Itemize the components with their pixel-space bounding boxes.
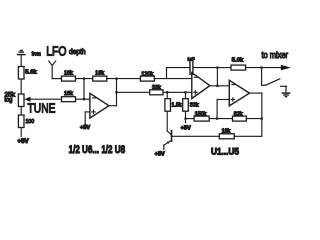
svg-text:U1...U5: U1...U5 (211, 146, 240, 157)
node (83, 78, 85, 80)
svg-text:5.6k: 5.6k (25, 69, 37, 75)
svg-text:150k: 150k (195, 111, 207, 117)
resistor 120k (140, 76, 154, 81)
op-amp U6 summer (90, 93, 109, 118)
resistor 18k (219, 134, 234, 139)
wire 33k row (117, 91, 150, 93)
svg-text:+5V: +5V (80, 125, 90, 131)
wire output (250, 92, 262, 94)
svg-text:5.6k: 5.6k (232, 58, 244, 64)
svg-text:+5V: +5V (18, 138, 30, 145)
wire base row (172, 135, 220, 137)
node (115, 91, 117, 93)
resistor 18k (62, 76, 76, 81)
wire (163, 91, 192, 93)
svg-text:1uF: 1uF (187, 56, 194, 62)
svg-text:1/2 U6... 1/2 U8: 1/2 U6... 1/2 U8 (69, 144, 126, 156)
svg-text:100: 100 (26, 119, 35, 125)
+5V node (184, 118, 186, 120)
ground (282, 92, 291, 97)
wire (51, 65, 53, 78)
wire output (210, 85, 229, 87)
wire cap feedback (216, 68, 218, 86)
wire (185, 111, 187, 118)
svg-text:log: log (5, 97, 14, 104)
resistor 5.6k (231, 65, 246, 70)
ground (17, 50, 26, 56)
resistor 1.5k vertical (166, 92, 168, 98)
op-amp U1..U5 schmitt (229, 80, 249, 106)
svg-text:33k: 33k (152, 85, 161, 91)
svg-text:+5V: +5V (155, 151, 165, 157)
svg-text:TUNE: TUNE (28, 101, 56, 116)
resistor 18k feedback (93, 76, 107, 81)
+5V to plus input (85, 111, 90, 113)
resistor 5.6k (18, 67, 24, 80)
svg-text:18k: 18k (64, 71, 73, 77)
svg-text:18k: 18k (95, 71, 104, 77)
wire (20, 55, 22, 66)
resistor 100 (18, 115, 24, 128)
svg-text:18k: 18k (222, 128, 231, 134)
svg-text:depth: depth (69, 49, 86, 56)
resistor 33k vertical (185, 92, 187, 98)
wire (246, 118, 261, 120)
node (166, 91, 168, 93)
wire (20, 79, 22, 94)
wire (76, 78, 93, 80)
svg-text:82k: 82k (234, 111, 243, 117)
switch (261, 68, 263, 86)
transistor Q1 (166, 111, 168, 131)
wire (217, 67, 231, 69)
resistor 150k (194, 116, 209, 121)
pot wiper row resistor 18k (62, 97, 76, 102)
node (261, 118, 263, 120)
wire (83, 79, 85, 100)
wire to plus input (216, 100, 218, 119)
wire (20, 128, 22, 137)
node (216, 85, 218, 87)
svg-text:120k: 120k (141, 71, 153, 77)
node (115, 78, 117, 80)
node (261, 67, 263, 69)
wire (234, 135, 261, 137)
node (216, 118, 218, 120)
wire (107, 78, 141, 80)
wire (186, 118, 195, 120)
svg-text:to mixer: to mixer (262, 50, 289, 60)
potentiometer 25k log TUNE (18, 94, 24, 107)
svg-text:LFO: LFO (46, 44, 67, 58)
svg-text:+5V: +5V (181, 125, 191, 131)
wire (154, 78, 191, 80)
wire to mixer (246, 67, 283, 69)
wire output (109, 105, 117, 107)
node (83, 98, 85, 100)
svg-text:18k: 18k (64, 91, 73, 97)
resistor 82k (233, 116, 247, 121)
svg-text:1.5k: 1.5k (172, 102, 183, 108)
svg-text:from: from (32, 52, 41, 58)
capacitor 1uF (189, 61, 191, 74)
wire (209, 118, 232, 120)
svg-text:33k: 33k (190, 102, 199, 108)
resistor 33k (150, 90, 163, 95)
wire (20, 107, 22, 116)
op-amp U1 integrator (192, 73, 210, 99)
wire (76, 98, 90, 100)
node (216, 67, 218, 69)
